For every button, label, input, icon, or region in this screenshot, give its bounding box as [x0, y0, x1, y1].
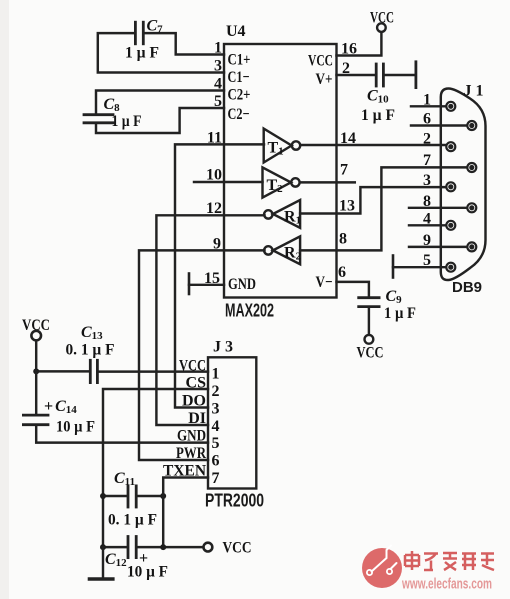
- wire C14 bottom to J3 GND: [36, 426, 208, 443]
- svg-text:1 µ F: 1 µ F: [361, 107, 395, 124]
- svg-text:GND: GND: [177, 428, 206, 445]
- svg-text:8: 8: [339, 230, 347, 247]
- connector J1 DB9 outline: [441, 89, 486, 281]
- transmitter buffer T1: [264, 129, 300, 163]
- svg-text:13: 13: [339, 198, 355, 215]
- svg-text:8: 8: [423, 193, 431, 210]
- capacitor C11: [128, 486, 136, 507]
- wire J1 pin 5: [393, 266, 446, 268]
- svg-text:1 µ F: 1 µ F: [125, 45, 159, 62]
- wire T1 output pin 14 to J1 pin 2: [300, 144, 446, 146]
- svg-text:U4: U4: [226, 23, 246, 40]
- svg-text:VCC: VCC: [22, 317, 50, 334]
- VCC terminal bottom left: [31, 331, 41, 341]
- svg-text:7: 7: [212, 470, 220, 487]
- svg-text:PTR2000: PTR2000: [205, 491, 264, 511]
- receiver buffer R2: [264, 236, 300, 264]
- svg-text:2: 2: [212, 383, 220, 400]
- node VCC junction: [33, 368, 39, 374]
- wire pin 13 / R1 output to J1 pin 3: [300, 187, 446, 213]
- svg-text:5: 5: [212, 435, 220, 452]
- svg-text:2: 2: [342, 60, 350, 77]
- wire pin 4 to C8 top: [96, 91, 224, 114]
- svg-text:11: 11: [207, 129, 222, 146]
- svg-text:0. 1 µ F: 0. 1 µ F: [66, 342, 115, 359]
- svg-text:1: 1: [214, 40, 222, 57]
- receiver buffer R1: [264, 200, 300, 228]
- wire C13 to J3 VCC: [99, 370, 208, 372]
- capacitor C14 polarized: [23, 415, 48, 425]
- svg-text:10: 10: [206, 167, 222, 184]
- wire pin 12 / R1 input to J3 DI: [156, 215, 264, 425]
- connector J3 PTR2000 body: [208, 357, 256, 488]
- capacitor C8: [84, 115, 113, 123]
- capacitor C9: [359, 298, 379, 307]
- svg-text:14: 14: [340, 130, 356, 147]
- svg-text:6: 6: [423, 111, 431, 128]
- wire C9 to VCC: [368, 308, 370, 335]
- watermark elecfans logo: [362, 546, 402, 589]
- J1 pin contact 2: [446, 142, 455, 151]
- svg-text:PWR: PWR: [176, 445, 206, 462]
- wire pin 15: [189, 284, 224, 286]
- wire pin 2 V+ to C10: [337, 74, 375, 76]
- VCC terminal top right: [377, 23, 386, 32]
- ground bar pin 15: [188, 274, 191, 295]
- svg-text:7: 7: [340, 161, 348, 178]
- svg-text:9: 9: [423, 232, 431, 249]
- svg-text:9: 9: [213, 235, 221, 252]
- svg-text:1 µ F: 1 µ F: [112, 113, 142, 130]
- svg-text:VCC: VCC: [308, 52, 333, 69]
- svg-text:V+: V+: [316, 71, 333, 88]
- capacitor C7: [135, 22, 143, 44]
- wire J1 pin 6 stub: [411, 124, 467, 126]
- wire C7 right lead to pin 1: [145, 33, 225, 54]
- svg-text:7: 7: [423, 152, 431, 169]
- wire C8 bottom lead to pin 5: [96, 108, 224, 133]
- capacitor C12 polarized: [128, 537, 136, 558]
- wire pin 7 stub / T2 output: [300, 181, 355, 183]
- svg-text:6: 6: [338, 264, 346, 281]
- wire pin 11 / T1 input to J3 DO: [175, 144, 264, 407]
- svg-text:C2+: C2+: [228, 87, 251, 104]
- transmitter buffer T2: [263, 167, 300, 197]
- svg-text:4: 4: [212, 418, 220, 435]
- node C11 right: [160, 493, 166, 499]
- J1 pin contact 1: [446, 102, 455, 111]
- svg-text:J 1: J 1: [464, 83, 484, 100]
- svg-text:16: 16: [341, 41, 357, 58]
- svg-text:5: 5: [423, 252, 431, 269]
- VCC terminal bottom middle: [204, 543, 213, 552]
- wire VCC to C13: [36, 370, 89, 372]
- wire pin 8 / R2 output to J1 pin 7: [300, 167, 467, 250]
- svg-text:J 3: J 3: [213, 339, 233, 356]
- VCC terminal below C9: [365, 335, 374, 344]
- svg-text:VCC: VCC: [223, 540, 252, 557]
- svg-text:VCC: VCC: [357, 345, 384, 362]
- svg-text:3: 3: [214, 58, 222, 75]
- capacitor C10: [376, 64, 383, 86]
- wire pin 9 / R2 input to J3 PWR: [139, 250, 265, 460]
- svg-text:2: 2: [423, 131, 431, 148]
- watermark chinese text: [405, 551, 494, 570]
- wire J1 pin 9 stub: [409, 246, 467, 248]
- wire J3 CS to ground rail: [103, 389, 208, 546]
- svg-text:6: 6: [212, 453, 220, 470]
- wire pin 16 to VCC: [337, 32, 382, 55]
- svg-text:DB9: DB9: [452, 279, 482, 296]
- terminal bar right of C10: [414, 62, 417, 88]
- svg-text:DI: DI: [188, 410, 206, 427]
- J1 pin contact 8: [467, 203, 476, 212]
- op-amp U4 MAX202 chip body: [224, 44, 337, 298]
- capacitor C13: [90, 360, 97, 382]
- wire J1 pin 8 stub: [409, 207, 467, 209]
- svg-text:www.elecfans.com: www.elecfans.com: [401, 576, 492, 593]
- J1 pin contact 9: [467, 242, 476, 251]
- scan edge band: [0, 0, 9, 599]
- wire VCC rail to C14: [35, 371, 37, 414]
- svg-text:DO: DO: [182, 393, 206, 410]
- svg-text:12: 12: [206, 200, 222, 217]
- svg-text:MAX202: MAX202: [225, 301, 274, 321]
- wire J3 TXEN down to VCC row: [163, 478, 208, 548]
- J1 pin contact 3: [446, 182, 455, 191]
- node C11 left: [100, 493, 106, 499]
- wire C10 right lead: [385, 74, 415, 76]
- wire ground rail down: [102, 547, 104, 578]
- J1 pin contact 5: [446, 263, 455, 272]
- svg-text:1: 1: [423, 91, 431, 108]
- svg-text:VCC: VCC: [179, 358, 206, 375]
- wire VCC rail down: [35, 341, 37, 371]
- ground bar J1 pin 5: [392, 256, 395, 278]
- svg-text:CS: CS: [186, 375, 207, 392]
- svg-text:5: 5: [214, 93, 222, 110]
- svg-text:10 µ F: 10 µ F: [127, 564, 168, 581]
- svg-text:VCC: VCC: [370, 10, 394, 27]
- svg-text:3: 3: [423, 172, 431, 189]
- wire C11 row: [103, 495, 163, 497]
- wire pin 6 V- to C9: [337, 282, 369, 297]
- J1 pin contact 6: [467, 121, 476, 130]
- J1 pin contact 4: [446, 221, 455, 230]
- wire C7 left lead to pin 3: [98, 33, 224, 72]
- svg-text:1 µ F: 1 µ F: [384, 305, 416, 322]
- wire pin 10 stub / T2 input: [194, 181, 263, 183]
- svg-text:3: 3: [212, 401, 220, 418]
- svg-text:10 µ F: 10 µ F: [56, 419, 95, 436]
- svg-text:1: 1: [212, 366, 220, 383]
- wire C12 row to VCC terminal: [103, 546, 203, 548]
- svg-text:V−: V−: [316, 274, 333, 291]
- ground bar bottom: [89, 577, 113, 580]
- svg-text:GND: GND: [228, 276, 256, 293]
- svg-text:C1−: C1−: [228, 69, 250, 86]
- svg-text:TXEN: TXEN: [163, 463, 206, 480]
- svg-text:0. 1 µ F: 0. 1 µ F: [108, 512, 157, 529]
- wire J1 pin 1 stub: [411, 105, 446, 107]
- node C12 right: [160, 544, 166, 550]
- svg-text:C2−: C2−: [228, 106, 250, 123]
- svg-text:15: 15: [204, 270, 220, 287]
- svg-text:4: 4: [423, 210, 431, 227]
- svg-text:C1+: C1+: [228, 51, 251, 68]
- node C12 left: [100, 544, 106, 550]
- J1 pin contact 7: [467, 163, 476, 172]
- svg-text:4: 4: [214, 76, 222, 93]
- wire J1 pin 4 stub: [409, 224, 446, 226]
